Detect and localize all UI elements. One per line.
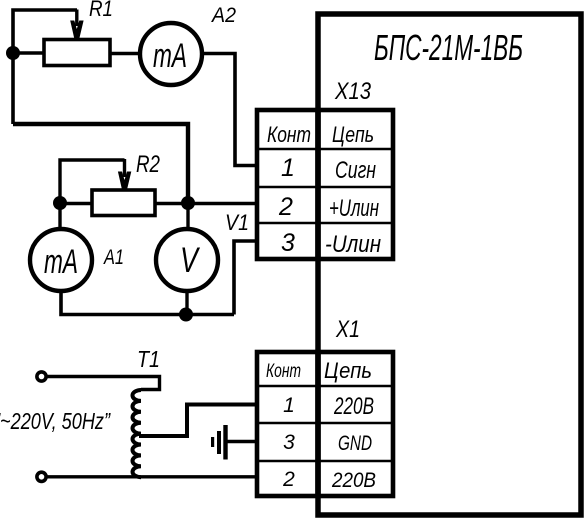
svg-text:+Uлин: +Uлин bbox=[329, 195, 379, 222]
svg-text:1: 1 bbox=[283, 394, 295, 417]
wire (R2 right lead to node) bbox=[155, 202, 188, 205]
wire (node down to V1) bbox=[186, 203, 189, 230]
label ~220V 50Hz bbox=[0, 408, 111, 434]
wire (R1 wiper arrowhead) bbox=[70, 21, 83, 40]
wire (A1 bottom down and right along bottom) bbox=[61, 291, 234, 315]
wire (bottom terminal through T1 bottom to X1 pin 2) bbox=[47, 475, 259, 478]
svg-text:220В: 220В bbox=[331, 469, 376, 492]
ammeter A1 bbox=[30, 229, 124, 291]
node (junction dot left, A1 top) bbox=[53, 196, 67, 210]
svg-text:Сигн: Сигн bbox=[335, 157, 376, 184]
svg-text:2: 2 bbox=[278, 193, 293, 221]
wire (R2 wiper arrowhead) bbox=[118, 172, 131, 191]
svg-text:Цепь: Цепь bbox=[324, 358, 372, 383]
connector X1 bbox=[257, 316, 393, 496]
svg-text:Конт: Конт bbox=[267, 122, 311, 147]
wire (top terminal to T1 primary top) bbox=[47, 377, 160, 390]
transformer T1 winding bbox=[133, 390, 142, 477]
ground bbox=[211, 425, 228, 460]
wire (R1 right lead to A2) bbox=[110, 52, 140, 55]
wire (R2 wiper loop) bbox=[60, 160, 125, 197]
wire (node down to A1) bbox=[58, 203, 61, 230]
svg-text:V1: V1 bbox=[225, 210, 249, 235]
resistor R2 (potentiometer) bbox=[92, 151, 160, 216]
wire (ground to X1 pin 3) bbox=[227, 440, 259, 444]
wire (long bottom wire of R1 loop down to R2 node) bbox=[13, 124, 188, 197]
ammeter A2 bbox=[140, 4, 236, 85]
svg-text:БПС-21М-1ВБ: БПС-21М-1ВБ bbox=[374, 27, 523, 68]
svg-text:T1: T1 bbox=[137, 346, 160, 372]
svg-text:V: V bbox=[180, 241, 201, 280]
wire (A2 to X13 pin 1) bbox=[202, 54, 259, 166]
terminal (bottom input) bbox=[37, 472, 46, 481]
svg-text:mA: mA bbox=[153, 37, 187, 75]
transformer T1 label bbox=[137, 346, 160, 372]
svg-text:”~220V, 50Hz”: ”~220V, 50Hz” bbox=[0, 408, 111, 434]
svg-text:-Uлин: -Uлин bbox=[325, 231, 381, 258]
svg-text:2: 2 bbox=[282, 468, 295, 491]
device box БПС-21М-1ВБ bbox=[318, 14, 581, 515]
svg-text:GND: GND bbox=[338, 432, 372, 455]
svg-text:3: 3 bbox=[283, 431, 295, 454]
wire (dot to R1 left lead) bbox=[13, 51, 44, 54]
svg-text:220В: 220В bbox=[333, 393, 374, 420]
svg-text:Конт: Конт bbox=[266, 361, 301, 382]
svg-text:mA: mA bbox=[44, 243, 78, 281]
wire (R2 wiper arrow shaft) bbox=[123, 159, 126, 177]
node (junction dot left of R1) bbox=[6, 46, 20, 60]
wire (bottom node up to X13 pin 3) bbox=[234, 241, 259, 315]
voltmeter V1 bbox=[156, 210, 249, 291]
node (junction dot bottom) bbox=[179, 308, 193, 322]
svg-text:R1: R1 bbox=[89, 0, 113, 21]
wire (R1 wiper loop: top horizontal and left vertical) bbox=[13, 10, 77, 124]
resistor R1 (potentiometer) bbox=[44, 0, 113, 66]
wire (node to R2 left lead) bbox=[60, 202, 92, 205]
svg-text:3: 3 bbox=[281, 229, 295, 257]
terminal (top input) bbox=[37, 372, 46, 381]
connector X13 bbox=[257, 78, 393, 259]
wire (node to X13 pin 2) bbox=[188, 202, 259, 206]
svg-text:A2: A2 bbox=[210, 4, 236, 27]
svg-text:R2: R2 bbox=[136, 151, 160, 178]
svg-text:X1: X1 bbox=[335, 316, 360, 343]
node (junction dot right, V1 top) bbox=[181, 196, 195, 210]
wire (V1 bottom to bottom wire) bbox=[185, 291, 188, 315]
wire (R1 wiper arrow shaft) bbox=[75, 10, 78, 27]
svg-text:A1: A1 bbox=[102, 246, 124, 269]
svg-text:X13: X13 bbox=[334, 78, 371, 105]
svg-text:Цепь: Цепь bbox=[332, 122, 374, 147]
wire (T1 tap to X1 pin 1) bbox=[139, 405, 259, 437]
svg-text:1: 1 bbox=[281, 154, 295, 182]
